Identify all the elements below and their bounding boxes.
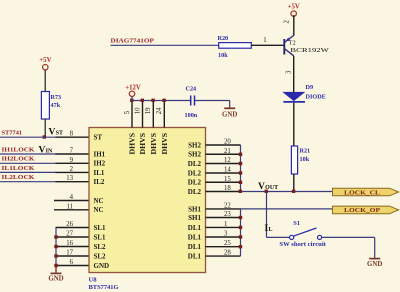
svg-text:3: 3: [286, 70, 293, 74]
svg-text:IL2: IL2: [94, 178, 105, 186]
svg-text:3: 3: [224, 231, 228, 238]
junction bus2 y=217.5: [239, 216, 242, 219]
pin name DL2: [188, 188, 202, 196]
ground GND (bottom left): [48, 266, 63, 283]
pin 21 (SH2) right: [206, 148, 241, 155]
svg-text:2: 2: [70, 166, 74, 173]
svg-text:IH1: IH1: [94, 150, 106, 158]
pin name NC: [94, 206, 104, 214]
switch S1 SW short circuit: [279, 220, 326, 248]
svg-text:+12V: +12V: [125, 85, 141, 92]
pin name DL1: [188, 233, 202, 241]
pin name DL2: [188, 169, 202, 177]
svg-text:T2: T2: [289, 40, 296, 47]
wire R21 to VOUT: [293, 174, 295, 192]
svg-text:9: 9: [70, 157, 74, 164]
pin name DHVS (pin 24): [161, 133, 169, 155]
junction bus2 y=246.7: [239, 245, 242, 248]
wire VOUT to LOCK_CL: [241, 191, 334, 193]
pin name SL2: [94, 252, 107, 260]
svg-text:47k: 47k: [51, 102, 61, 109]
pin 12 (DL2) right: [206, 157, 241, 164]
wire bus SH1/DL1: [240, 209, 242, 256]
junction bus1 y=163.5: [239, 162, 242, 165]
svg-text:1: 1: [224, 221, 227, 228]
svg-text:25: 25: [224, 240, 231, 247]
svg-text:18: 18: [224, 185, 231, 192]
svg-text:11: 11: [66, 203, 73, 210]
svg-text:GND: GND: [222, 112, 237, 119]
svg-text:R20: R20: [218, 35, 229, 42]
svg-text:5: 5: [124, 110, 131, 114]
pin 3 (DL1) right: [206, 231, 241, 238]
pin 11 (NC) left: [54, 203, 89, 210]
port LOCK_CL: [333, 188, 399, 196]
pin name DL1: [188, 253, 202, 261]
pin name IH2: [94, 160, 106, 168]
annotation VST: [49, 127, 64, 137]
pin name IH1: [94, 150, 106, 158]
svg-text:4: 4: [70, 194, 74, 201]
resistor R20: [218, 35, 252, 59]
svg-text:DHVS: DHVS: [129, 133, 137, 155]
net label IH2LOCK: [0, 156, 56, 164]
pin name SL1: [94, 233, 107, 241]
op-amp U8 BTS7741G body: [89, 128, 206, 273]
svg-text:21: 21: [224, 148, 231, 155]
svg-text:7: 7: [70, 148, 74, 155]
svg-text:IL1LOCK: IL1LOCK: [2, 165, 35, 172]
pin name SH2: [188, 141, 201, 149]
svg-text:10k: 10k: [218, 52, 228, 59]
wire T2 collector to D9: [293, 56, 295, 93]
svg-text:+5V: +5V: [39, 57, 51, 64]
pin name DL2: [188, 160, 202, 168]
junction bus2 y=237.0: [239, 235, 242, 238]
pin 6 (GND) left: [56, 259, 90, 266]
pin 18 (DL2) right: [206, 185, 241, 192]
svg-text:LOCK_OP: LOCK_OP: [344, 207, 380, 214]
pin 13 (IL2) left: [56, 175, 90, 182]
svg-text:28: 28: [224, 250, 231, 257]
ground GND (bottom right): [367, 259, 382, 268]
svg-text:14: 14: [224, 167, 231, 174]
junction SL bus y=256.0: [54, 254, 57, 257]
wire R20 to T2 base: [251, 37, 284, 45]
pin name GND: [94, 262, 110, 270]
junction wire1 at bus: [239, 190, 242, 193]
svg-text:S1: S1: [293, 220, 300, 227]
pin 7 (IH1) left: [56, 148, 90, 155]
wire bus SH2/DL2: [240, 145, 242, 192]
net label DIAG7741OP: [111, 38, 219, 46]
pin 4 (NC) left: [54, 194, 89, 201]
port LOCK_OP: [333, 206, 399, 214]
svg-text:C24: C24: [186, 86, 197, 93]
ground GND (at C24): [222, 108, 237, 118]
pin 17 (SL2) left: [56, 250, 90, 257]
svg-text:DL2: DL2: [188, 179, 202, 187]
svg-text:GND: GND: [94, 262, 110, 270]
pin name DHVS (pin 10): [139, 133, 147, 155]
wire SH1 row to LOCK_OP: [241, 208, 334, 210]
svg-text:IH2: IH2: [94, 160, 106, 168]
pin name SH1: [188, 205, 201, 213]
svg-text:GND: GND: [367, 261, 382, 268]
svg-text:DL2: DL2: [188, 188, 202, 196]
svg-text:DHVS: DHVS: [161, 133, 169, 155]
net label ST7741: [0, 130, 56, 138]
junction wire1 at VOUT stem: [265, 190, 268, 193]
svg-text:SL1: SL1: [94, 233, 107, 241]
svg-text:100n: 100n: [185, 112, 198, 119]
svg-text:SL2: SL2: [94, 252, 107, 260]
wire +12V rail: [132, 100, 190, 102]
net label IL1LOCK: [0, 165, 56, 173]
power +5V (left): [39, 57, 51, 92]
svg-text:R73: R73: [51, 94, 62, 101]
svg-text:DL1: DL1: [188, 224, 202, 232]
svg-text:SH2: SH2: [188, 141, 201, 149]
svg-text:SL1: SL1: [94, 224, 107, 232]
svg-text:GND: GND: [48, 276, 63, 283]
power +12V: [125, 85, 141, 101]
svg-text:16: 16: [66, 240, 73, 247]
svg-text:DL1: DL1: [188, 253, 202, 261]
junction bus1 y=182.25: [239, 181, 242, 184]
junction SL bus y=237.0: [54, 235, 57, 238]
svg-text:26: 26: [66, 221, 73, 228]
junction bus1 y=154.25: [239, 153, 242, 156]
svg-text:IL2LOCK: IL2LOCK: [2, 174, 35, 181]
pin 14 (DL2) right: [206, 167, 241, 174]
wire R73 to ST node: [44, 119, 46, 137]
pin 8 (ST) left: [56, 131, 90, 138]
pin 9 (IH2) left: [56, 157, 90, 164]
net label IL2LOCK: [0, 174, 56, 182]
svg-text:10k: 10k: [300, 156, 310, 163]
svg-text:IH2LOCK: IH2LOCK: [2, 156, 35, 163]
capacitor C24: [185, 86, 198, 120]
pin 2 (IL1) left: [56, 166, 90, 173]
annotation IL: [265, 224, 273, 234]
pin 27 (SL1) left: [56, 231, 90, 238]
svg-text:10: 10: [134, 107, 141, 114]
wire D9 to R21: [293, 103, 295, 146]
junction SL bus y=265.5: [54, 264, 57, 267]
svg-text:19: 19: [145, 107, 152, 114]
svg-text:DL2: DL2: [188, 160, 202, 168]
pin 20 (SH2) right: [206, 139, 241, 146]
annotation VIN: [39, 145, 54, 155]
junction SL bus y=246.5: [54, 245, 57, 248]
pin 16 (SL2) left: [56, 240, 90, 247]
wire C24 to GND: [195, 101, 230, 108]
svg-text:23: 23: [224, 211, 231, 218]
pin 10 (DHVS) top: [134, 99, 144, 128]
wire SL-GND bus: [55, 228, 57, 272]
power +5V (right): [288, 4, 300, 36]
svg-text:SW short circuit: SW short circuit: [279, 241, 326, 248]
svg-text:8: 8: [70, 131, 74, 138]
svg-text:20: 20: [224, 139, 231, 146]
svg-text:12: 12: [224, 157, 231, 164]
pin 23 (SH1) right: [206, 211, 241, 218]
svg-text:15: 15: [224, 176, 231, 183]
pin 28 (DL1) right: [206, 250, 241, 257]
svg-text:IH1LOCK: IH1LOCK: [2, 146, 35, 153]
pin 25 (DL1) right: [206, 240, 241, 247]
pin 1 (DL1) right: [206, 221, 241, 228]
pin name IL1: [94, 169, 105, 177]
svg-text:NC: NC: [94, 197, 104, 205]
svg-text:27: 27: [66, 231, 73, 238]
pin name DL1: [188, 243, 202, 251]
pin name SH1: [188, 214, 201, 222]
svg-text:13: 13: [66, 175, 73, 182]
svg-text:1: 1: [263, 37, 266, 44]
svg-text:SH2: SH2: [188, 151, 201, 159]
svg-text:SH1: SH1: [188, 205, 201, 213]
svg-text:DL1: DL1: [188, 243, 202, 251]
part name BTS7741G: [89, 284, 119, 291]
pin 26 (SL1) left: [56, 221, 90, 228]
svg-text:D9: D9: [306, 84, 314, 91]
pin name SH2: [188, 151, 201, 159]
pin 22 (SH1) right: [206, 202, 241, 209]
svg-text:R21: R21: [300, 148, 311, 155]
svg-text:U8: U8: [89, 277, 98, 284]
junction node VST: [43, 135, 46, 138]
pin name DHVS (pin 19): [150, 133, 158, 155]
svg-text:BCR192W: BCR192W: [290, 47, 330, 54]
svg-text:ST7741: ST7741: [2, 130, 23, 137]
svg-text:NC: NC: [94, 206, 104, 214]
resistor R21: [291, 146, 310, 174]
junction bus1 y=173.0: [239, 171, 242, 174]
pin name NC: [94, 197, 104, 205]
pin name DHVS (pin 5): [129, 133, 137, 155]
svg-text:24: 24: [156, 107, 163, 114]
svg-text:22: 22: [224, 202, 231, 209]
svg-text:DIODE: DIODE: [306, 94, 326, 101]
designator U8: [89, 277, 98, 284]
pin 19 (DHVS) top: [145, 99, 155, 128]
resistor R73: [41, 92, 61, 120]
pin 15 (DL2) right: [206, 176, 241, 183]
pin 24 (DHVS) top: [156, 99, 166, 128]
pin name IL2: [94, 178, 105, 186]
svg-text:DIAG7741OP: DIAG7741OP: [111, 38, 155, 45]
svg-text:DHVS: DHVS: [139, 133, 147, 155]
svg-text:IL1: IL1: [94, 169, 105, 177]
svg-text:DL2: DL2: [188, 169, 202, 177]
svg-text:BTS7741G: BTS7741G: [89, 284, 119, 291]
junction wire1 at R21: [292, 190, 295, 193]
diode D9: [283, 84, 325, 102]
svg-text:LOCK_CL: LOCK_CL: [344, 189, 381, 196]
svg-text:17: 17: [66, 250, 73, 257]
svg-text:ST: ST: [94, 134, 103, 142]
pin name ST: [94, 134, 103, 142]
wire VOUT stem to switch: [267, 192, 290, 238]
wire switch to GND: [322, 237, 375, 258]
net label IH1LOCK: [0, 146, 56, 154]
svg-text:6: 6: [70, 259, 74, 266]
svg-text:2: 2: [283, 20, 290, 24]
pin name DL1: [188, 224, 202, 232]
annotation VOUT: [258, 182, 278, 192]
pin name SL2: [94, 243, 107, 251]
svg-text:SL2: SL2: [94, 243, 107, 251]
junction bus2 y=227.4: [239, 226, 242, 229]
pin name SL1: [94, 224, 107, 232]
svg-text:SH1: SH1: [188, 214, 201, 222]
svg-text:DHVS: DHVS: [150, 133, 158, 155]
transistor Q T2 BCR192W (PNP): [283, 20, 330, 75]
pin name DL2: [188, 179, 202, 187]
svg-text:DL1: DL1: [188, 233, 202, 241]
svg-text:+5V: +5V: [288, 4, 300, 11]
pin 5 (DHVS) top: [124, 99, 134, 128]
